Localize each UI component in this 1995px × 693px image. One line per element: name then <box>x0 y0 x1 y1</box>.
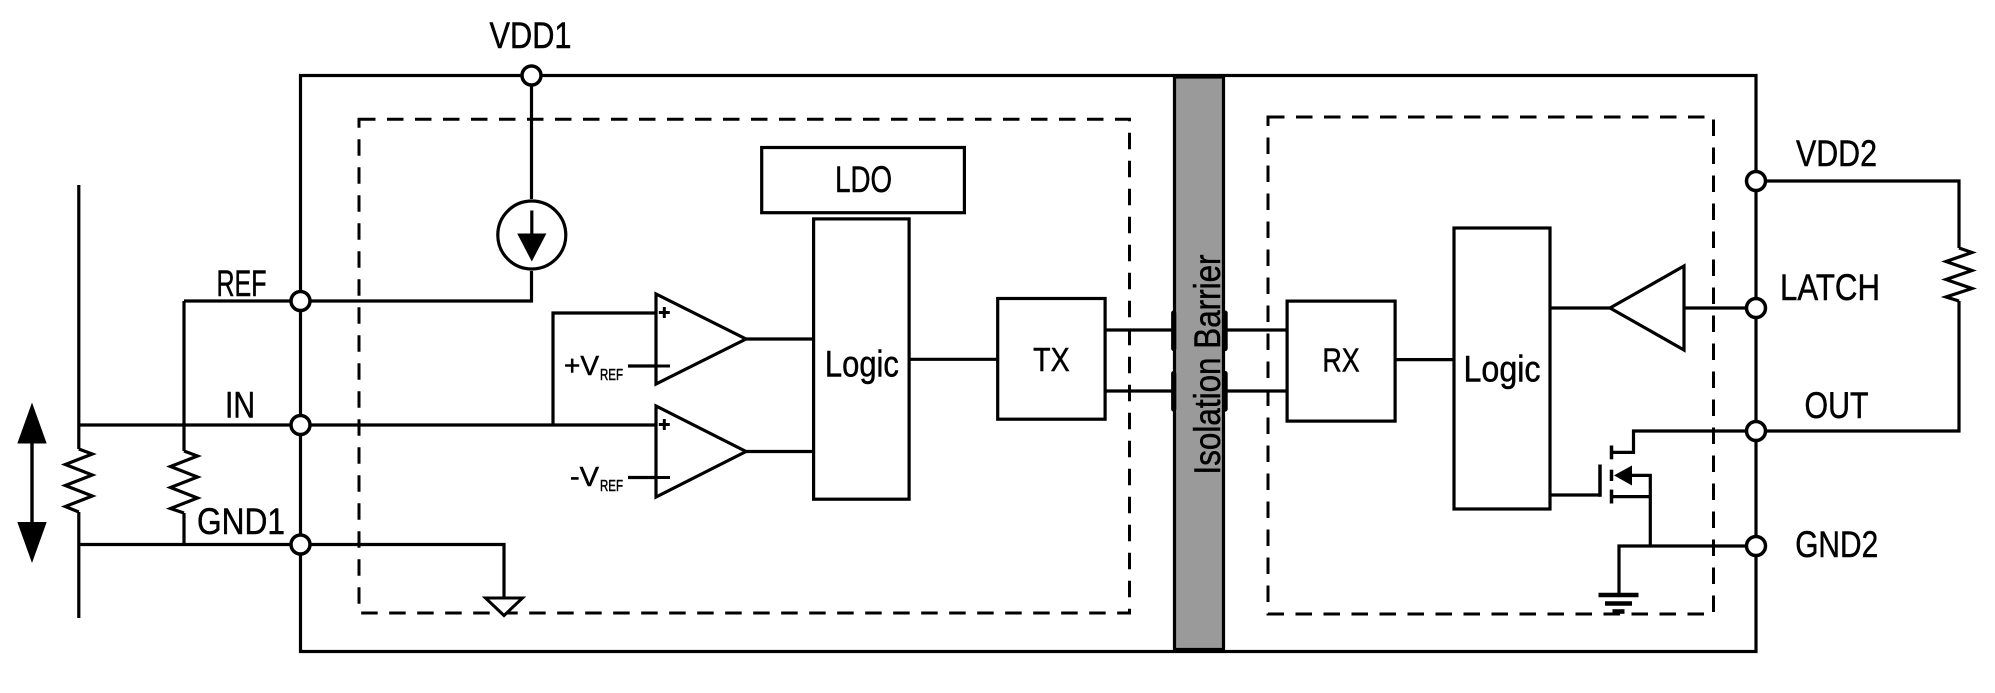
wire TX to barrier (top) <box>1105 328 1174 331</box>
pin VDD2 <box>1747 172 1766 191</box>
barrier capacitor ticks <box>1174 313 1225 409</box>
wire IN internal to comparators <box>301 423 657 426</box>
comparator U1 <box>656 294 746 384</box>
wire IN external <box>79 423 301 426</box>
transistor Q1 (NMOS) <box>1600 446 1632 504</box>
double arrow (signal swing) <box>17 403 46 564</box>
wire IN branch up to comparator U1 <box>553 313 656 425</box>
wire Logic to MOSFET gate <box>1550 493 1600 496</box>
wire REF external <box>184 299 301 302</box>
svg-text:GND2: GND2 <box>1795 524 1878 565</box>
right inner dashed box <box>1268 117 1714 614</box>
wire R3 to OUT pin <box>1756 301 1959 431</box>
wire Q1 source <box>1612 495 1651 498</box>
comparator U2 <box>656 406 746 497</box>
resistor R2 (REF to GND1) <box>171 301 198 545</box>
resistor R1 (source line) <box>65 449 92 512</box>
wire LATCH to buffer <box>1684 306 1756 309</box>
svg-text:+V: +V <box>564 350 599 381</box>
pin LATCH <box>1747 299 1766 318</box>
wire U1 minus stub <box>628 364 656 367</box>
svg-text:RX: RX <box>1322 342 1359 379</box>
wire Q1 drain to OUT <box>1612 431 1757 452</box>
source line (left external) <box>77 185 80 449</box>
pin GND2 <box>1747 537 1766 556</box>
svg-text:VDD1: VDD1 <box>490 15 572 56</box>
wire GND1 internal <box>301 545 505 599</box>
Logic box (right) <box>1454 228 1550 509</box>
pin REF <box>291 292 310 311</box>
resistor R3 <box>1946 248 1972 301</box>
pin IN <box>291 416 310 435</box>
wire TX to barrier (bottom) <box>1105 389 1174 392</box>
wire current source to REF net <box>301 271 532 301</box>
ground (left, signal ground triangle) <box>486 598 523 616</box>
buffer U3 <box>1610 266 1684 350</box>
wire U2 output <box>746 450 814 453</box>
chip outer box <box>301 76 1757 652</box>
svg-text:-V: -V <box>570 461 599 492</box>
TX box <box>998 299 1105 420</box>
wire Q1 body <box>1632 475 1650 546</box>
wire VDD2 external <box>1756 181 1959 248</box>
left inner dashed box <box>359 119 1130 613</box>
svg-text:Isolation Barrier: Isolation Barrier <box>1187 255 1228 475</box>
wire U1 output <box>746 337 814 340</box>
wire U2 minus stub <box>628 476 656 479</box>
pin VDD1 <box>522 66 541 85</box>
svg-text:LDO: LDO <box>835 159 892 200</box>
wire barrier to RX (top) <box>1225 328 1288 331</box>
svg-text:REF: REF <box>600 478 623 495</box>
LDO box <box>762 148 965 213</box>
Logic box (left) <box>814 219 910 499</box>
wire Logic to buffer apex <box>1550 306 1610 309</box>
wire Logic to TX <box>909 358 998 361</box>
svg-text:Logic: Logic <box>825 343 899 384</box>
isolation barrier bar <box>1175 77 1229 650</box>
svg-text:VDD2: VDD2 <box>1796 133 1877 174</box>
wire VDD1 drop <box>530 76 533 200</box>
RX box <box>1287 301 1395 421</box>
wire GND1 external <box>79 543 301 546</box>
ground (right, earth) <box>1599 595 1639 612</box>
svg-text:REF: REF <box>217 263 267 304</box>
svg-text:OUT: OUT <box>1805 385 1869 426</box>
wire barrier to RX (bottom) <box>1225 389 1288 392</box>
svg-text:LATCH: LATCH <box>1780 267 1880 308</box>
svg-text:IN: IN <box>225 385 255 426</box>
wire RX to Logic <box>1395 358 1454 361</box>
current source I1 <box>498 201 566 269</box>
svg-text:GND1: GND1 <box>197 501 285 542</box>
svg-text:TX: TX <box>1033 341 1070 378</box>
pin GND1 <box>291 535 310 554</box>
wire GND2 internal <box>1619 546 1756 595</box>
svg-text:Logic: Logic <box>1464 349 1541 390</box>
pin OUT <box>1747 422 1766 441</box>
svg-text:REF: REF <box>600 367 623 384</box>
